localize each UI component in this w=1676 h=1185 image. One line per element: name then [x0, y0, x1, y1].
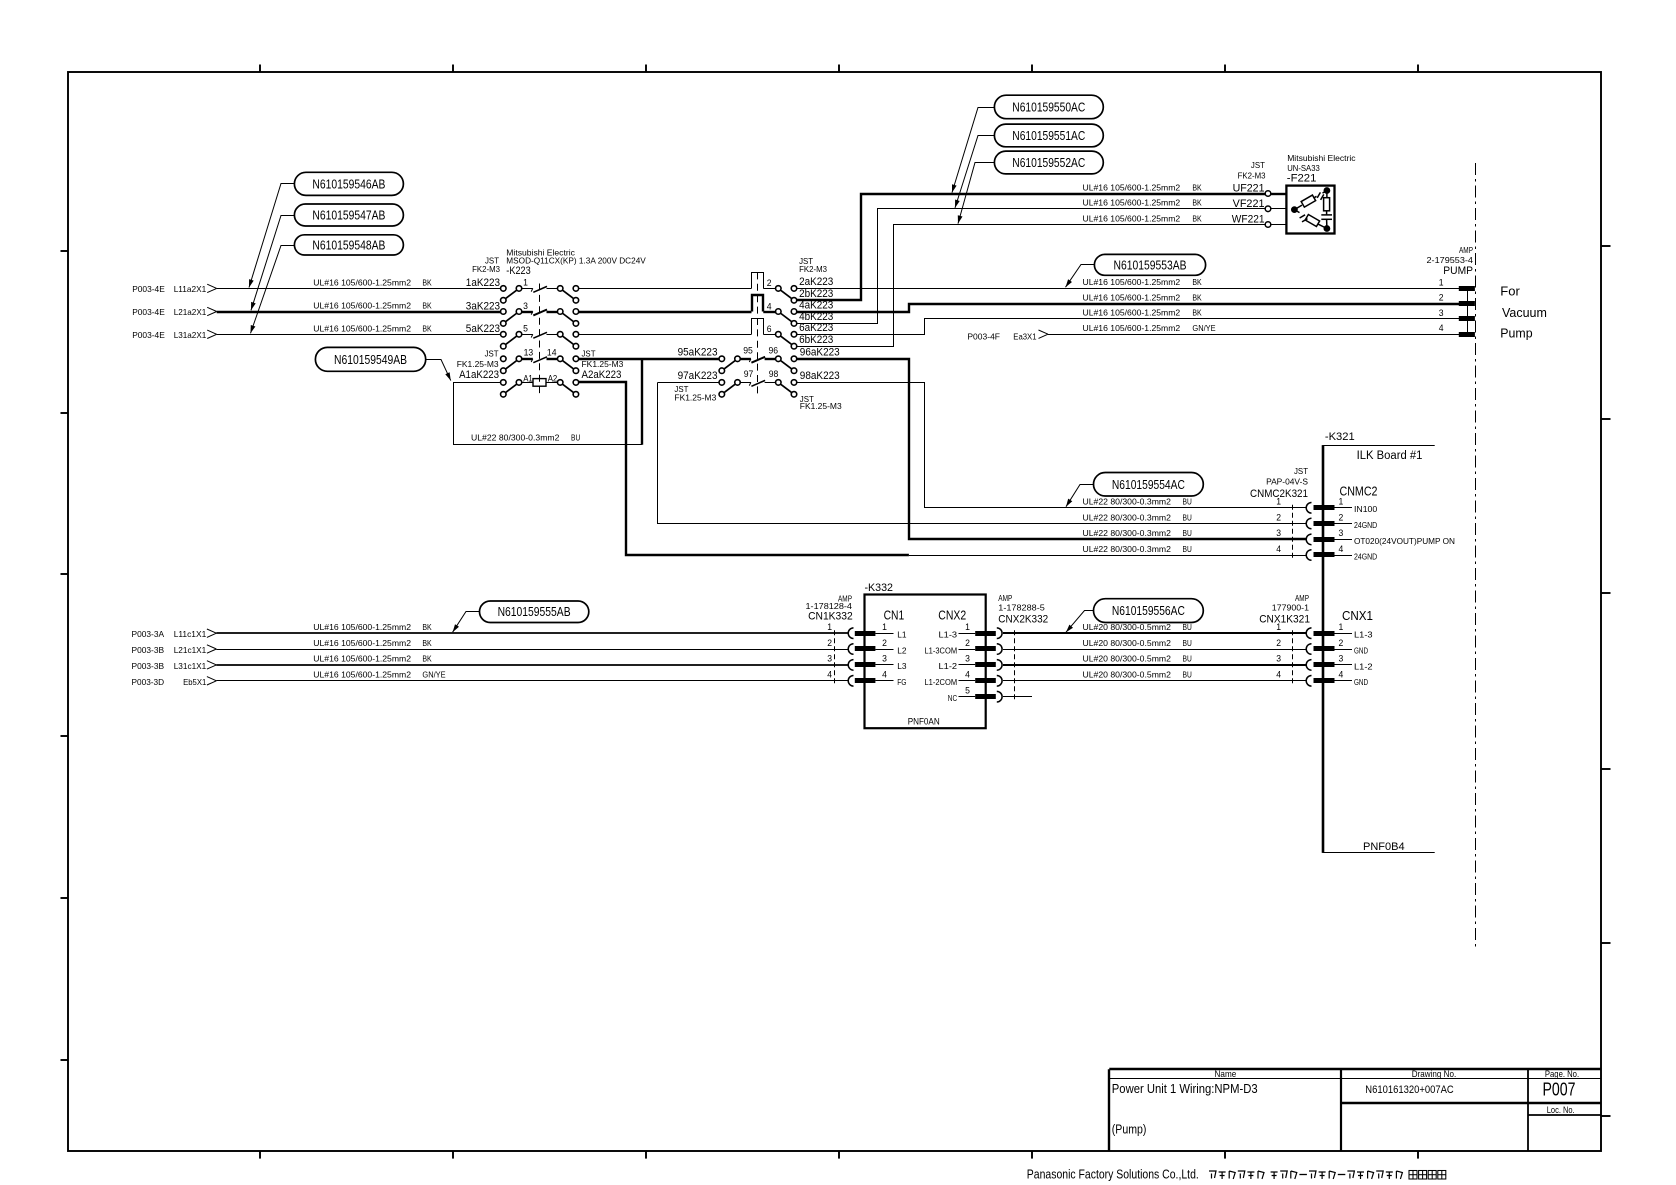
- svg-text:BU: BU: [1183, 622, 1192, 632]
- svg-text:2: 2: [1276, 638, 1281, 648]
- svg-text:BU: BU: [1183, 638, 1192, 648]
- svg-text:PAP-04V-S: PAP-04V-S: [1266, 477, 1308, 487]
- svg-text:BK: BK: [1192, 277, 1202, 287]
- svg-text:For: For: [1500, 284, 1520, 299]
- svg-text:L11c1X1: L11c1X1: [174, 629, 207, 639]
- svg-text:UL#20 80/300-0.5mm2: UL#20 80/300-0.5mm2: [1083, 638, 1172, 648]
- svg-text:UL#16 105/600-1.25mm2: UL#16 105/600-1.25mm2: [313, 654, 411, 664]
- svg-text:L21a2X1: L21a2X1: [174, 307, 207, 317]
- svg-text:L1: L1: [897, 630, 907, 640]
- svg-text:P003-4E: P003-4E: [132, 330, 165, 340]
- svg-text:BK: BK: [422, 654, 432, 664]
- svg-text:UL#20 80/300-0.5mm2: UL#20 80/300-0.5mm2: [1083, 670, 1172, 680]
- svg-text:BK: BK: [422, 622, 432, 632]
- svg-text:UL#16 105/600-1.25mm2: UL#16 105/600-1.25mm2: [1083, 182, 1181, 192]
- svg-text:OT020(24VOUT)PUMP ON: OT020(24VOUT)PUMP ON: [1354, 536, 1455, 546]
- svg-text:P003-3A: P003-3A: [132, 629, 165, 639]
- svg-text:3: 3: [1276, 528, 1281, 538]
- svg-text:UF221: UF221: [1233, 183, 1265, 195]
- svg-text:1: 1: [1339, 497, 1344, 507]
- svg-text:L31a2X1: L31a2X1: [174, 330, 207, 340]
- svg-text:2aK223: 2aK223: [799, 276, 833, 288]
- svg-text:1: 1: [1339, 622, 1344, 632]
- svg-text:2: 2: [1439, 293, 1444, 303]
- svg-text:-K321: -K321: [1325, 431, 1355, 443]
- svg-text:1: 1: [523, 278, 528, 288]
- svg-text:(Pump): (Pump): [1112, 1123, 1147, 1137]
- svg-text:3: 3: [1339, 654, 1344, 664]
- svg-text:5: 5: [523, 324, 528, 334]
- svg-text:5: 5: [965, 686, 970, 696]
- svg-text:98: 98: [769, 369, 779, 379]
- svg-text:N610159550AC: N610159550AC: [1012, 101, 1085, 115]
- svg-text:96: 96: [769, 345, 779, 355]
- svg-text:4: 4: [827, 670, 832, 680]
- svg-text:N610159554AC: N610159554AC: [1112, 478, 1185, 492]
- svg-text:P007: P007: [1543, 1079, 1576, 1100]
- svg-text:P003-3B: P003-3B: [132, 645, 165, 655]
- svg-text:PUMP: PUMP: [1443, 265, 1473, 277]
- svg-text:3: 3: [1339, 528, 1344, 538]
- svg-text:3: 3: [523, 301, 528, 311]
- svg-text:2: 2: [1276, 512, 1281, 522]
- svg-text:4: 4: [1276, 544, 1281, 554]
- svg-text:FK1.25-M3: FK1.25-M3: [674, 392, 716, 402]
- svg-text:UL#16 105/600-1.25mm2: UL#16 105/600-1.25mm2: [1083, 323, 1181, 333]
- svg-text:VF221: VF221: [1233, 198, 1265, 210]
- svg-text:2: 2: [1339, 512, 1344, 522]
- svg-text:P003-3D: P003-3D: [132, 677, 165, 687]
- svg-text:98aK223: 98aK223: [800, 370, 840, 382]
- svg-text:4: 4: [882, 670, 887, 680]
- svg-text:Loc. No.: Loc. No.: [1547, 1105, 1575, 1116]
- svg-text:P003-4E: P003-4E: [132, 284, 165, 294]
- svg-text:Vacuum: Vacuum: [1502, 305, 1547, 320]
- svg-text:N610159549AB: N610159549AB: [334, 353, 407, 367]
- svg-text:L3: L3: [897, 661, 907, 671]
- svg-text:24GND: 24GND: [1354, 551, 1377, 561]
- svg-text:CNX2K332: CNX2K332: [998, 613, 1048, 625]
- svg-text:3aK223: 3aK223: [466, 300, 500, 312]
- svg-text:BK: BK: [1192, 292, 1202, 302]
- svg-text:CN1: CN1: [884, 607, 905, 622]
- svg-text:-F221: -F221: [1287, 173, 1317, 185]
- svg-text:96aK223: 96aK223: [800, 347, 840, 359]
- svg-text:P003-4E: P003-4E: [132, 307, 165, 317]
- svg-text:UL#16 105/600-1.25mm2: UL#16 105/600-1.25mm2: [1083, 277, 1181, 287]
- svg-text:BU: BU: [1183, 670, 1192, 680]
- svg-text:UL#16 105/600-1.25mm2: UL#16 105/600-1.25mm2: [1083, 213, 1181, 223]
- svg-text:FK2-M3: FK2-M3: [1238, 171, 1266, 181]
- svg-text:BK: BK: [422, 301, 432, 311]
- svg-text:1: 1: [1276, 622, 1281, 632]
- svg-text:4: 4: [767, 301, 772, 311]
- svg-text:2: 2: [965, 638, 970, 648]
- svg-text:JST: JST: [1251, 160, 1266, 170]
- svg-text:4: 4: [1339, 670, 1344, 680]
- svg-text:N610159548AB: N610159548AB: [312, 238, 385, 252]
- svg-text:JST: JST: [582, 349, 597, 359]
- svg-text:1: 1: [965, 622, 970, 632]
- svg-text:UL#16 105/600-1.25mm2: UL#16 105/600-1.25mm2: [313, 670, 411, 680]
- svg-text:UL#16 105/600-1.25mm2: UL#16 105/600-1.25mm2: [313, 277, 411, 287]
- svg-text:5aK223: 5aK223: [466, 323, 500, 335]
- svg-text:4: 4: [1276, 670, 1281, 680]
- svg-text:Name: Name: [1215, 1069, 1237, 1080]
- svg-text:L1-2: L1-2: [1354, 661, 1373, 671]
- svg-text:BU: BU: [1183, 528, 1192, 538]
- svg-text:N610159555AB: N610159555AB: [498, 605, 571, 619]
- svg-text:BU: BU: [571, 433, 580, 443]
- svg-text:2: 2: [1339, 638, 1344, 648]
- svg-text:Ea3X1: Ea3X1: [1013, 331, 1036, 341]
- svg-text:-K223: -K223: [506, 265, 530, 277]
- svg-text:N610159551AC: N610159551AC: [1012, 129, 1085, 143]
- svg-text:1-178128-4: 1-178128-4: [806, 601, 853, 611]
- svg-text:1aK223: 1aK223: [466, 277, 500, 289]
- svg-text:CNX2: CNX2: [938, 607, 966, 622]
- svg-text:Pump: Pump: [1500, 326, 1532, 341]
- svg-text:13: 13: [524, 347, 534, 357]
- svg-text:1: 1: [882, 622, 887, 632]
- svg-text:A2: A2: [548, 373, 558, 383]
- svg-text:P003-3B: P003-3B: [132, 661, 165, 671]
- svg-text:UL#16 105/600-1.25mm2: UL#16 105/600-1.25mm2: [1083, 308, 1181, 318]
- svg-text:UL#16 105/600-1.25mm2: UL#16 105/600-1.25mm2: [1083, 198, 1181, 208]
- svg-text:CNX1: CNX1: [1342, 608, 1373, 623]
- svg-text:FK1.25-M3: FK1.25-M3: [800, 401, 842, 411]
- svg-text:FK2-M3: FK2-M3: [472, 264, 500, 274]
- svg-text:WF221: WF221: [1232, 214, 1265, 226]
- svg-text:AMP: AMP: [1459, 245, 1473, 255]
- svg-text:NC: NC: [948, 693, 957, 703]
- svg-text:N610161320+007AC: N610161320+007AC: [1365, 1084, 1453, 1096]
- svg-text:2bK223: 2bK223: [799, 288, 833, 300]
- svg-text:CN1K332: CN1K332: [808, 610, 853, 622]
- svg-text:L1-3COM: L1-3COM: [925, 645, 958, 655]
- svg-text:1: 1: [1439, 277, 1444, 287]
- svg-text:JST: JST: [1294, 466, 1309, 476]
- svg-text:24GND: 24GND: [1354, 520, 1377, 530]
- svg-text:PNF0AN: PNF0AN: [908, 717, 940, 728]
- svg-text:UL#22 80/300-0.3mm2: UL#22 80/300-0.3mm2: [1083, 544, 1172, 554]
- svg-text:BK: BK: [1192, 198, 1202, 208]
- svg-text:L11a2X1: L11a2X1: [174, 284, 207, 294]
- svg-text:GND: GND: [1354, 677, 1368, 687]
- svg-text:L21c1X1: L21c1X1: [174, 645, 207, 655]
- svg-text:Panasonic Factory Solutions Co: Panasonic Factory Solutions Co.,Ltd.: [1027, 1168, 1199, 1182]
- svg-text:UL#16 105/600-1.25mm2: UL#16 105/600-1.25mm2: [313, 323, 411, 333]
- svg-text:L2: L2: [897, 645, 907, 655]
- svg-text:JST: JST: [485, 349, 500, 359]
- svg-text:UL#22 80/300-0.3mm2: UL#22 80/300-0.3mm2: [1083, 497, 1172, 507]
- svg-text:UN-SA33: UN-SA33: [1287, 163, 1320, 173]
- svg-text:Mitsubishi Electric: Mitsubishi Electric: [1287, 153, 1356, 163]
- svg-text:95aK223: 95aK223: [678, 347, 718, 359]
- svg-text:N610159553AB: N610159553AB: [1114, 258, 1187, 272]
- svg-text:PNF0B4: PNF0B4: [1363, 841, 1405, 853]
- svg-text:A1aK223: A1aK223: [459, 369, 499, 381]
- svg-text:GN/YE: GN/YE: [1192, 323, 1215, 333]
- svg-text:2: 2: [767, 278, 772, 288]
- svg-text:1: 1: [1276, 497, 1281, 507]
- svg-text:L1-3: L1-3: [939, 630, 958, 640]
- svg-text:UL#20 80/300-0.5mm2: UL#20 80/300-0.5mm2: [1083, 654, 1172, 664]
- svg-text:BU: BU: [1183, 654, 1192, 664]
- svg-text:N610159556AC: N610159556AC: [1112, 604, 1185, 618]
- svg-text:P003-4F: P003-4F: [967, 331, 1000, 341]
- svg-text:FK1.25-M3: FK1.25-M3: [582, 359, 624, 369]
- svg-text:L1-2: L1-2: [939, 661, 958, 671]
- svg-text:ILK Board #1: ILK Board #1: [1357, 450, 1423, 462]
- svg-text:N610159552AC: N610159552AC: [1012, 156, 1085, 170]
- svg-text:FK2-M3: FK2-M3: [799, 264, 827, 274]
- svg-text:BK: BK: [1192, 308, 1202, 318]
- svg-text:UL#16 105/600-1.25mm2: UL#16 105/600-1.25mm2: [313, 622, 411, 632]
- svg-text:L1-2COM: L1-2COM: [925, 677, 958, 687]
- svg-text:BK: BK: [1192, 182, 1202, 192]
- svg-text:CNMC2: CNMC2: [1340, 484, 1378, 499]
- svg-text:4: 4: [965, 670, 970, 680]
- svg-text:2-179553-4: 2-179553-4: [1427, 255, 1474, 265]
- svg-text:-K332: -K332: [865, 582, 894, 594]
- svg-text:3: 3: [882, 654, 887, 664]
- svg-text:1: 1: [827, 622, 832, 632]
- svg-text:Eb5X1: Eb5X1: [183, 677, 206, 687]
- svg-text:GN/YE: GN/YE: [422, 670, 445, 680]
- svg-text:3: 3: [1276, 654, 1281, 664]
- svg-text:BU: BU: [1183, 544, 1192, 554]
- svg-text:3: 3: [1439, 308, 1444, 318]
- svg-text:97: 97: [744, 369, 754, 379]
- svg-text:2: 2: [827, 638, 832, 648]
- svg-text:4: 4: [1439, 323, 1444, 333]
- svg-text:6aK223: 6aK223: [799, 322, 833, 334]
- svg-text:1-178288-5: 1-178288-5: [998, 603, 1045, 613]
- svg-text:177900-1: 177900-1: [1272, 603, 1309, 613]
- svg-text:3: 3: [965, 654, 970, 664]
- svg-text:UL#16 105/600-1.25mm2: UL#16 105/600-1.25mm2: [313, 638, 411, 648]
- svg-text:UL#22 80/300-0.3mm2: UL#22 80/300-0.3mm2: [471, 433, 560, 443]
- svg-text:FG: FG: [897, 677, 907, 687]
- svg-text:Drawing No.: Drawing No.: [1412, 1069, 1456, 1080]
- svg-text:L1-3: L1-3: [1354, 630, 1373, 640]
- svg-text:N610159547AB: N610159547AB: [312, 209, 385, 223]
- svg-text:BU: BU: [1183, 512, 1192, 522]
- svg-text:FK1.25-M3: FK1.25-M3: [457, 359, 499, 369]
- svg-text:Power Unit 1 Wiring:NPM-D3: Power Unit 1 Wiring:NPM-D3: [1112, 1082, 1258, 1096]
- svg-text:4aK223: 4aK223: [799, 299, 833, 311]
- svg-text:BK: BK: [422, 323, 432, 333]
- svg-text:2: 2: [882, 638, 887, 648]
- svg-text:UL#22 80/300-0.3mm2: UL#22 80/300-0.3mm2: [1083, 512, 1172, 522]
- svg-text:BU: BU: [1183, 497, 1192, 507]
- svg-text:UL#22 80/300-0.3mm2: UL#22 80/300-0.3mm2: [1083, 528, 1172, 538]
- svg-text:14: 14: [547, 347, 557, 357]
- svg-text:A1: A1: [523, 373, 533, 383]
- svg-text:6: 6: [767, 324, 772, 334]
- svg-text:GND: GND: [1354, 645, 1368, 655]
- svg-text:97aK223: 97aK223: [678, 370, 718, 382]
- svg-text:4: 4: [1339, 544, 1344, 554]
- svg-text:UL#20 80/300-0.5mm2: UL#20 80/300-0.5mm2: [1083, 622, 1172, 632]
- svg-text:IN100: IN100: [1354, 504, 1377, 514]
- svg-text:A2aK223: A2aK223: [582, 369, 622, 381]
- svg-text:BK: BK: [422, 277, 432, 287]
- svg-text:BK: BK: [422, 638, 432, 648]
- svg-text:CNX1K321: CNX1K321: [1259, 613, 1310, 625]
- svg-text:L31c1X1: L31c1X1: [174, 661, 207, 671]
- svg-text:6bK223: 6bK223: [799, 334, 833, 346]
- svg-text:N610159546AB: N610159546AB: [312, 177, 385, 191]
- svg-text:3: 3: [827, 654, 832, 664]
- svg-text:BK: BK: [1192, 213, 1202, 223]
- svg-text:95: 95: [743, 345, 753, 355]
- svg-text:UL#16 105/600-1.25mm2: UL#16 105/600-1.25mm2: [313, 301, 411, 311]
- svg-text:UL#16 105/600-1.25mm2: UL#16 105/600-1.25mm2: [1083, 292, 1181, 302]
